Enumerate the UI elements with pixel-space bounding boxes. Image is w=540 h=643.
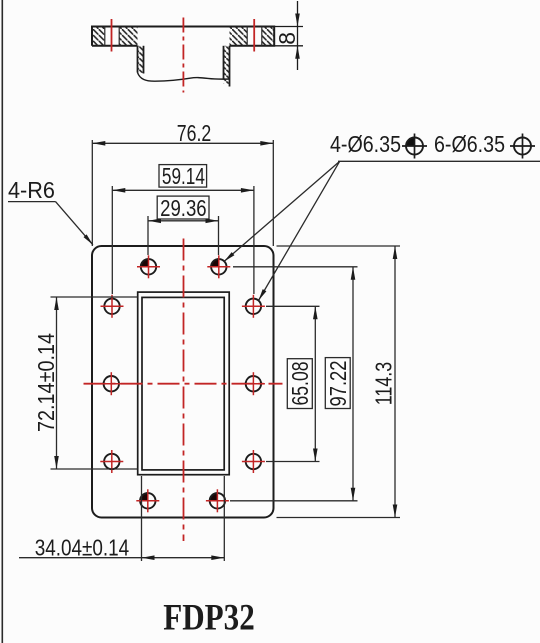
bolt hole F xyxy=(242,372,265,395)
bolt hole D xyxy=(242,295,265,318)
dimension 65.08 xyxy=(266,306,320,461)
label 4-R6 xyxy=(8,202,93,245)
svg-text:4-Ø6.35: 4-Ø6.35 xyxy=(330,131,401,157)
bolt hole H xyxy=(242,450,265,473)
svg-text:34.04±0.14: 34.04±0.14 xyxy=(35,535,130,561)
position symbol open xyxy=(510,134,535,159)
section hatch blocks xyxy=(92,27,274,46)
caption underline xyxy=(338,160,540,162)
bolt hole A xyxy=(137,255,160,278)
position symbol filled xyxy=(402,134,427,159)
section red center axis xyxy=(182,18,184,93)
dimension 29.36 xyxy=(148,196,219,255)
dimension 76.2 xyxy=(92,140,273,246)
dimension 59.14 xyxy=(112,165,254,294)
waveguide tube walls xyxy=(138,46,230,87)
bolt hole G xyxy=(100,450,123,473)
bolt hole E xyxy=(100,372,123,395)
svg-text:76.2: 76.2 xyxy=(177,120,212,146)
leader to hole D xyxy=(259,161,340,300)
svg-text:FDP32: FDP32 xyxy=(163,598,255,639)
dimension 34.04 xyxy=(19,476,224,561)
svg-text:59.14: 59.14 xyxy=(162,163,205,189)
section hole edges xyxy=(105,27,262,46)
border left edge xyxy=(1,0,3,643)
dimension 114.3 xyxy=(277,246,401,518)
tube break line xyxy=(138,73,230,82)
dimension 97.22 xyxy=(230,267,358,501)
bolt hole I xyxy=(136,489,159,512)
leader to hole B xyxy=(224,161,340,261)
section red hole centerline left xyxy=(111,19,113,52)
svg-text:65.08: 65.08 xyxy=(287,362,313,406)
bolt hole J xyxy=(206,489,229,512)
svg-text:8: 8 xyxy=(274,32,300,45)
svg-text:114.3: 114.3 xyxy=(371,362,397,406)
aperture inner rect xyxy=(142,297,224,470)
svg-text:6-Ø6.35: 6-Ø6.35 xyxy=(434,131,505,157)
dimension 72.14 xyxy=(51,297,138,469)
section red hole centerline right xyxy=(253,19,255,52)
aperture outer rect xyxy=(138,292,230,475)
red vertical center axis xyxy=(183,239,185,542)
svg-text:97.22: 97.22 xyxy=(325,361,351,407)
dimension 8 thickness xyxy=(274,1,303,70)
flange plate section outline xyxy=(92,27,274,46)
red horizontal center axis xyxy=(84,383,283,385)
bolt hole C xyxy=(101,295,124,318)
flange plate outline xyxy=(92,246,274,518)
svg-text:4-R6: 4-R6 xyxy=(8,177,55,203)
svg-text:72.14±0.14: 72.14±0.14 xyxy=(33,333,59,432)
svg-text:29.36: 29.36 xyxy=(160,195,207,221)
bolt hole B xyxy=(207,255,230,278)
